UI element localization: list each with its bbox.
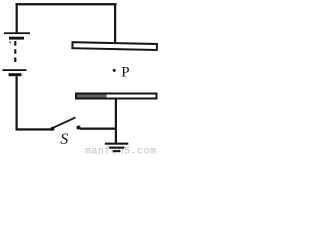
svg-text:S: S — [60, 131, 68, 148]
svg-text:P: P — [121, 64, 129, 80]
